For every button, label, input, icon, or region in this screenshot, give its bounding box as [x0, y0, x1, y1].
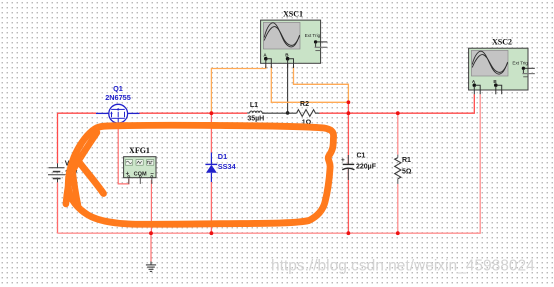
wire: XSC1 B- to common node (orange) [294, 66, 349, 102]
label R2 [300, 101, 312, 127]
junction: R1 bottom on bottom rail [396, 231, 400, 235]
label C1 [341, 152, 377, 170]
wire: XSC1 B+ vertical (black) [287, 63, 289, 113]
junction: C1 bottom on bottom rail [347, 231, 351, 235]
oscilloscope XSC2 [469, 48, 535, 94]
svg-text:2N6755: 2N6755 [105, 93, 131, 102]
svg-text:5Ω: 5Ω [402, 168, 412, 175]
wire: XSC1 A- to common node (orange) [271, 66, 348, 102]
svg-text:Ext Trig: Ext Trig [512, 61, 528, 66]
diode D1 (SS34) [205, 153, 217, 183]
wire: bottom rail (salmon) [58, 94, 481, 233]
svg-text:COM: COM [134, 171, 147, 177]
svg-text:https://blog.csdn.net/weixin_4: https://blog.csdn.net/weixin_45988024 [271, 258, 535, 275]
svg-text:C1: C1 [357, 152, 366, 159]
junction: XFG1 minus / ground on bottom rail [149, 231, 153, 235]
label R1 [402, 157, 412, 175]
wire: ground stub below rail (red) [150, 233, 152, 261]
svg-text:220µF: 220µF [356, 163, 377, 170]
svg-text:XSC1: XSC1 [283, 10, 303, 19]
wire: D1 branch vertical (red) [210, 113, 212, 233]
svg-text:XFG1: XFG1 [129, 146, 150, 155]
junction: C1 top on top rail [347, 111, 351, 115]
wire: common node down to rail (red) [347, 102, 349, 113]
junction: XSC1 B+ at L1/R2 node (black) [286, 111, 290, 115]
wire: top rail (net after V1+, red) [58, 94, 475, 113]
wire: R1 branch vertical (salmon) [397, 113, 399, 233]
transistor Q1 (2N6755 MOSFET) [96, 104, 140, 123]
resistor R1 [395, 155, 401, 184]
wire: left branch V1 (red) [57, 113, 59, 233]
svg-text:Q1: Q1 [113, 84, 123, 93]
battery V1 [48, 163, 65, 182]
annotation: orange arrow stroke 2 [76, 158, 104, 194]
svg-text:R1: R1 [402, 157, 411, 164]
oscilloscope XSC1 [261, 20, 328, 68]
junction: D1/XSC1-A+ on top rail [210, 111, 214, 115]
wire: XFG1 minus to bottom rail (red) [150, 180, 152, 233]
wire: black net between L1 and R2 [262, 112, 297, 114]
annotation: orange freehand loop [68, 125, 333, 224]
label D1 [218, 152, 237, 171]
label V1 [65, 161, 78, 178]
wire: XSC1 A+ to node (orange) [211, 66, 265, 114]
junction: D1 bottom on bottom rail [210, 231, 214, 235]
function generator XFG1 [124, 157, 156, 184]
svg-text:SS34: SS34 [218, 162, 237, 171]
svg-text:D1: D1 [218, 152, 227, 161]
svg-text:+: + [341, 157, 345, 164]
label Q1 [105, 84, 131, 102]
inductor L1 [247, 111, 264, 113]
resistor R2 [297, 110, 320, 117]
junction: scope common node above C1 [347, 100, 351, 104]
wire: C1 branch vertical (red) [347, 113, 349, 233]
svg-text:L1: L1 [250, 102, 258, 109]
junction: R1 top on top rail [396, 111, 400, 115]
svg-text:XSC2: XSC2 [492, 38, 512, 47]
wire: Q1 gate to XFG1 plus (red) [118, 123, 129, 184]
capacitor C1 [342, 155, 354, 180]
svg-text:35µH: 35µH [247, 116, 264, 123]
svg-text:R2: R2 [300, 101, 309, 108]
ground [146, 262, 156, 272]
label L1 [247, 102, 264, 123]
annotation: orange arrow stroke 1 [66, 133, 97, 205]
annotation: orange arrow stroke 3 [73, 170, 79, 206]
svg-text:Ext Trig: Ext Trig [305, 33, 321, 38]
